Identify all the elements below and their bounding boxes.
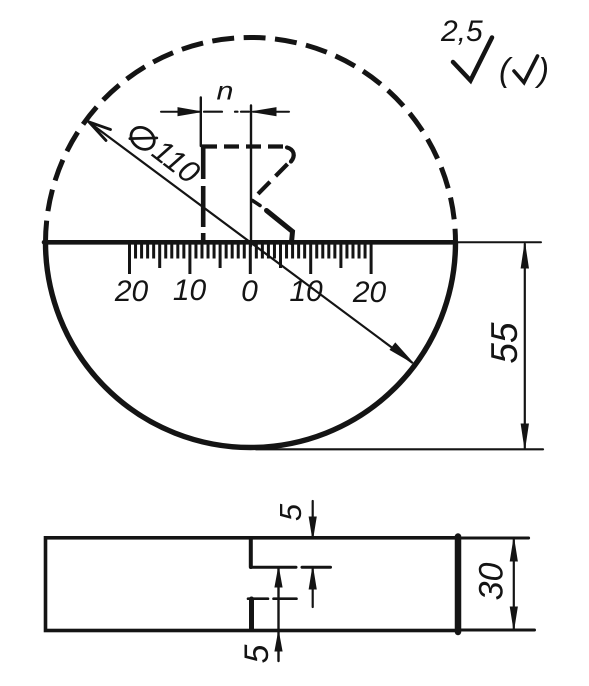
top 5 dimension line lower part [312,568,314,608]
scale ticks [130,244,372,274]
top 5 dimension line upper part [312,501,314,537]
svg-text:2,5: 2,5 [440,15,483,48]
55 arrow up [521,244,528,268]
right extension line of diameter [456,241,541,243]
svg-text:5: 5 [238,644,276,663]
svg-text:20: 20 [114,275,149,308]
n dimension line right tail [253,111,289,113]
bottom tangent extension line [256,448,543,450]
n dimension line left tail [161,111,201,113]
top slot bottom line [251,566,331,569]
top 5 arrow up [309,568,316,590]
side view outline rectangle [46,538,459,631]
horizontal diameter line [44,240,456,245]
svg-text:n: n [217,76,234,106]
thick dashed hidden edge vertical [201,146,206,241]
svg-text:30: 30 [473,563,511,601]
svg-text:55: 55 [484,322,525,364]
dashed diagonal of pointer (hidden) [254,164,288,198]
n dimension dash-dot between extensions [204,111,249,113]
diameter label F110 [123,115,206,190]
bottom notch left wall [249,599,254,630]
dashed hidden edge horizontal [202,144,285,148]
diameter dimension diagonal line [90,123,412,363]
30 arrow down [510,607,517,629]
30 dimension line [513,538,515,630]
svg-text:5: 5 [273,503,308,521]
30 bottom extension line [459,629,535,632]
diagonal open arrow upper left [89,122,111,141]
30 top extension line [459,537,529,540]
roughness check mark [453,38,492,81]
svg-text:0: 0 [241,275,258,308]
top 5 arrow down [309,517,316,539]
solid lower semicircle of disc [46,243,456,448]
middle arrow up at slot bottom [275,568,282,587]
svg-text:10: 10 [173,274,207,307]
n dimension arrow left [178,108,201,116]
side view right edge thick [455,537,462,633]
center extension line of n dimension / zero axis [250,106,252,247]
hook corner of pointer (hidden) [287,148,294,162]
n dimension arrow right [253,108,277,116]
middle dimension line [277,568,279,662]
solid visible edge of pointer [267,211,293,243]
30 arrow up [510,539,517,561]
bottom arrow up at bottom edge [275,632,282,651]
55 arrow down [521,424,528,448]
svg-text:20: 20 [352,276,387,309]
vertex mark of pointer [253,201,261,206]
top slot left wall [249,539,253,567]
dashed upper semicircle of disc [46,37,456,242]
55 dimension line [524,244,526,448]
left extension line of n dimension [200,98,202,147]
diagonal arrow lower right [390,343,413,363]
bottom notch top line [248,597,297,600]
parenthesized check mark tick [514,56,538,83]
